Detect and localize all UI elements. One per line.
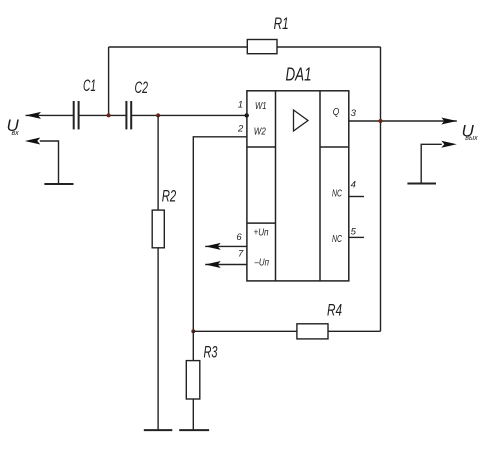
pin 4 NC stub wire (349, 196, 364, 198)
wire top feedback left segment (109, 46, 248, 48)
resistor R4 (297, 324, 328, 339)
op-amp DA1 amplifier triangle (294, 110, 309, 131)
output terminal arrow upper (441, 118, 457, 125)
svg-text:Q: Q (333, 106, 340, 118)
svg-text:4: 4 (351, 180, 356, 191)
svg-text:7: 7 (238, 249, 244, 260)
node between C1 and C2 (107, 113, 111, 117)
op-amp DA1 left cell divider below W2 (247, 146, 276, 148)
svg-text:вх: вх (12, 130, 20, 137)
resistor R3 top wire (192, 331, 194, 360)
op-amp DA1 outer box (247, 91, 349, 281)
wire lower input terminal to ground (40, 141, 59, 184)
svg-text:R2: R2 (162, 187, 177, 206)
wire R4 left (193, 330, 297, 332)
wire C1 to C2 (79, 114, 126, 116)
svg-text:вых: вых (465, 135, 478, 142)
op-amp DA1 left cell divider above +Un (247, 222, 276, 224)
svg-text:1: 1 (238, 100, 243, 111)
svg-text:3: 3 (351, 108, 357, 119)
op-amp DA1 right cell divider below Q (320, 146, 349, 148)
output terminal arrow lower (441, 141, 457, 148)
svg-text:–Uп: –Uп (254, 257, 269, 269)
node R2 tap (156, 113, 160, 117)
wire left vertical from top wire to C1-C2 node (108, 47, 110, 115)
node R3-R4 junction (191, 329, 195, 333)
svg-text:W2: W2 (254, 125, 266, 137)
op-amp DA1 right column divider (319, 91, 321, 281)
resistor R2 bottom wire (157, 248, 159, 430)
resistor R3 bottom wire (192, 399, 194, 430)
resistor R1 (247, 40, 277, 54)
ground R2 (144, 429, 173, 431)
svg-text:2: 2 (237, 124, 244, 135)
svg-text:C1: C1 (83, 76, 96, 95)
resistor R2 top wire (157, 115, 159, 210)
wire R4 right (328, 330, 381, 332)
ground right output (407, 183, 436, 185)
svg-text:W1: W1 (255, 100, 267, 112)
wire lower output terminal to ground (421, 144, 442, 183)
pin 5 NC stub wire (349, 236, 364, 238)
capacitor C2 (125, 101, 127, 129)
op-amp DA1 left column divider (275, 91, 277, 281)
wire input to C1 (26, 114, 74, 116)
svg-text:DA1: DA1 (286, 65, 312, 85)
svg-text:+Uп: +Uп (254, 227, 269, 239)
svg-text:R3: R3 (204, 343, 218, 362)
wire output pin 3 (349, 120, 457, 122)
wire pin 2 of DA1 (193, 137, 247, 331)
input terminal arrow lower (25, 138, 41, 145)
node output feedback junction (379, 119, 383, 123)
svg-text:C2: C2 (135, 78, 149, 97)
arrow -Un supply (205, 261, 221, 268)
ground R3 (179, 429, 209, 431)
svg-text:6: 6 (236, 232, 242, 243)
node pin 1 junction (245, 113, 249, 117)
svg-text:R1: R1 (274, 14, 289, 33)
svg-text:NC: NC (332, 233, 342, 245)
wire right vertical from top wire to R4 (380, 47, 382, 331)
input terminal arrow upper (26, 112, 42, 119)
resistor R3 (186, 361, 200, 399)
capacitor C1 (73, 101, 75, 129)
label Uvx (7, 116, 20, 137)
label Uvyx (462, 122, 479, 143)
svg-text:5: 5 (351, 227, 357, 238)
arrow +Un supply (205, 243, 221, 250)
wire C2 to pin 1 of DA1 (132, 114, 247, 116)
wire -Un pin 7 (205, 264, 247, 266)
svg-text:R4: R4 (327, 301, 342, 320)
svg-text:NC: NC (332, 187, 342, 199)
ground left input (44, 183, 73, 185)
wire +Un pin 6 (205, 245, 247, 247)
wire top feedback right segment (277, 46, 381, 48)
resistor R2 (152, 210, 164, 248)
